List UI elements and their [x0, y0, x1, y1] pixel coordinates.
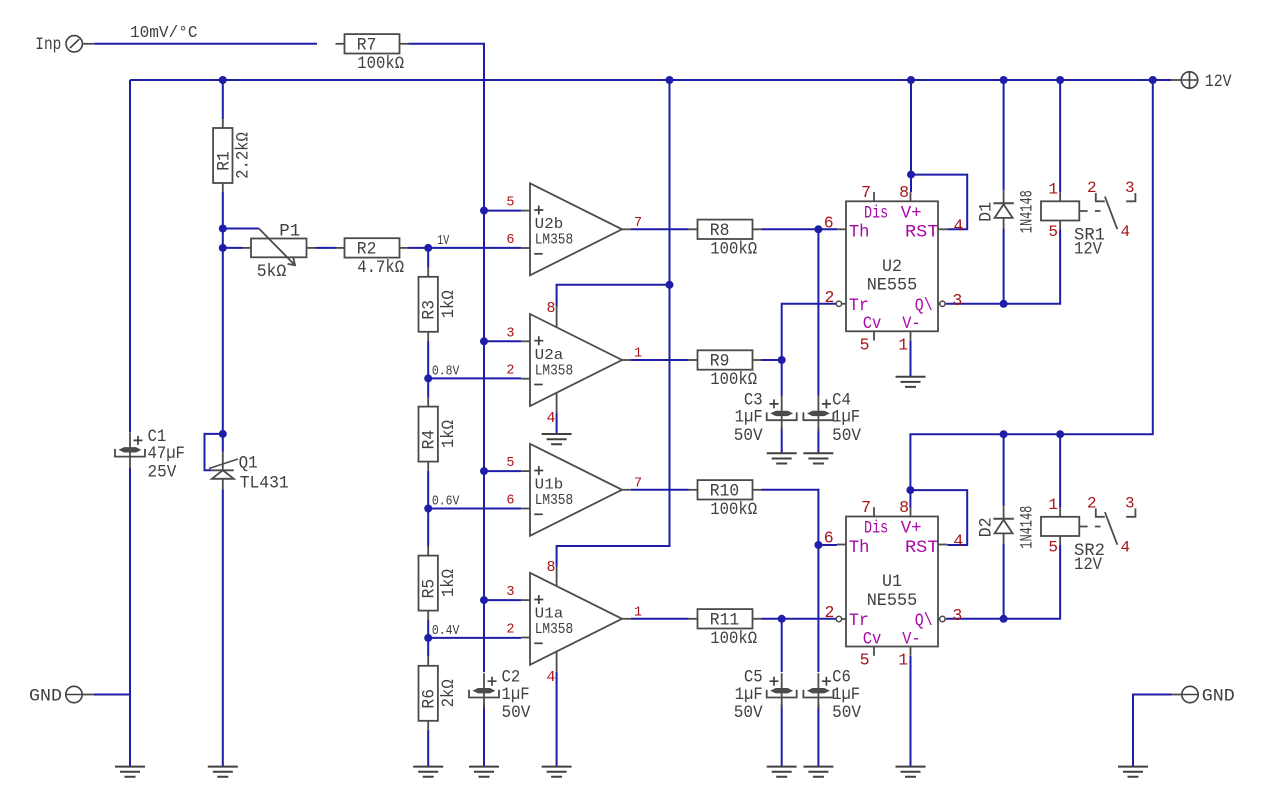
- ground: [803, 767, 833, 777]
- svg-text:100kΩ: 100kΩ: [357, 54, 404, 74]
- junction: [424, 634, 432, 642]
- wire Q to SR1 pin5: [1004, 230, 1061, 304]
- wire P1 wiper: [223, 228, 259, 230]
- junction: [219, 225, 227, 233]
- junction: [1056, 76, 1064, 84]
- svg-text:3: 3: [506, 585, 514, 600]
- wire R8 to U2 Th: [762, 228, 838, 230]
- wire D2 top: [1003, 434, 1005, 506]
- diode D1: [1003, 191, 1005, 204]
- svg-text:Dis: Dis: [864, 203, 888, 223]
- svg-text:RST: RST: [905, 538, 939, 558]
- capacitor C6: [817, 673, 819, 708]
- timer U2: [846, 201, 938, 331]
- svg-text:4: 4: [1121, 223, 1131, 241]
- svg-text:12V: 12V: [1074, 239, 1102, 259]
- junction: [219, 76, 227, 84]
- svg-text:R5: R5: [420, 579, 440, 599]
- wire D1 top: [1003, 80, 1005, 191]
- wire R6 to ground: [427, 730, 429, 767]
- shunt reference Q1 TL431: [222, 452, 224, 471]
- svg-text:Dis: Dis: [864, 519, 888, 539]
- junction: [480, 207, 488, 215]
- svg-text:1: 1: [898, 651, 908, 670]
- relay SR1 contact: [1096, 193, 1105, 201]
- svg-text:R11: R11: [710, 611, 739, 631]
- svg-text:3: 3: [952, 291, 962, 310]
- wire right GND pin: [1133, 695, 1172, 767]
- wire 0.8V to U2a pin2: [428, 377, 521, 379]
- junction: [424, 244, 432, 252]
- wire C5 hang: [781, 619, 783, 672]
- op-amp U2a: [530, 314, 622, 406]
- svg-text:1µF: 1µF: [832, 685, 860, 705]
- wire U2 V- to ground: [910, 341, 912, 377]
- junction: [424, 374, 432, 382]
- svg-text:1V: 1V: [437, 234, 450, 249]
- svg-text:GND: GND: [1202, 687, 1235, 707]
- svg-text:RST: RST: [905, 223, 939, 243]
- wire Q to SR2 pin5: [1004, 545, 1061, 619]
- svg-text:Tr: Tr: [849, 296, 869, 316]
- svg-text:2: 2: [506, 623, 514, 638]
- wire R1 node to Q1: [222, 248, 224, 452]
- wire +input rail: [483, 211, 485, 672]
- svg-text:R2: R2: [357, 240, 377, 260]
- ground: [208, 767, 238, 777]
- junction: [1000, 76, 1008, 84]
- svg-text:Th: Th: [849, 538, 870, 558]
- wire SR2 pin1: [1059, 434, 1061, 508]
- svg-text:Q\: Q\: [915, 611, 933, 631]
- wire R2 to 1V node: [409, 247, 429, 249]
- wire Inp to R7: [94, 43, 317, 45]
- svg-text:LM358: LM358: [535, 232, 574, 249]
- svg-text:2.2kΩ: 2.2kΩ: [234, 132, 254, 179]
- svg-text:LM358: LM358: [535, 492, 574, 509]
- capacitor C3: [781, 396, 783, 431]
- svg-text:V-: V-: [902, 629, 920, 649]
- wire 0.8V-R4: [427, 378, 429, 397]
- svg-text:25V: 25V: [148, 462, 177, 482]
- wire C3 hang: [781, 360, 783, 396]
- svg-text:U1: U1: [882, 572, 902, 592]
- svg-text:LM358: LM358: [535, 621, 574, 638]
- svg-text:NE555: NE555: [867, 276, 918, 296]
- svg-text:R6: R6: [420, 689, 440, 709]
- capacitor C1: [129, 432, 131, 467]
- svg-text:50V: 50V: [832, 703, 861, 723]
- wire divider 1V-R3: [427, 248, 429, 268]
- junction: [666, 76, 674, 84]
- junction: [1056, 430, 1064, 438]
- pin Inp stub: [82, 43, 94, 45]
- wire R10 jog to U1 Th: [762, 490, 838, 545]
- wire R5-0.4V: [427, 620, 429, 638]
- ground C4: [803, 453, 833, 463]
- junction: [778, 615, 786, 623]
- wire C4 hang: [817, 229, 819, 396]
- svg-text:5: 5: [860, 651, 870, 670]
- ground: [896, 767, 926, 777]
- svg-text:P1: P1: [279, 222, 300, 242]
- capacitor C2: [483, 673, 485, 708]
- resistor R4: [427, 398, 429, 407]
- wire U2 Tr jog: [782, 304, 837, 360]
- resistor R1: [222, 119, 224, 128]
- svg-text:3: 3: [1125, 495, 1135, 513]
- svg-text:V+: V+: [901, 519, 922, 539]
- wire +input row 4: [484, 599, 521, 601]
- op-amp U1a pin 8 stub: [556, 567, 558, 587]
- op-amp U2b: [530, 183, 622, 275]
- svg-text:1kΩ: 1kΩ: [439, 290, 459, 318]
- svg-text:U2: U2: [882, 257, 902, 277]
- svg-text:1µF: 1µF: [735, 685, 763, 705]
- wire R1 to P1 node: [222, 192, 224, 248]
- junction: [906, 486, 914, 494]
- svg-text:1: 1: [1048, 180, 1058, 198]
- junction: [219, 244, 227, 252]
- svg-text:4.7kΩ: 4.7kΩ: [357, 258, 404, 278]
- svg-text:R4: R4: [420, 430, 440, 450]
- svg-text:5: 5: [506, 196, 514, 211]
- svg-text:0.6V: 0.6V: [432, 495, 460, 510]
- pin GND left stub: [82, 694, 94, 696]
- resistor R6: [427, 657, 429, 666]
- svg-text:5: 5: [506, 456, 514, 471]
- svg-text:8: 8: [546, 559, 555, 576]
- pin 12V: [1181, 72, 1197, 88]
- svg-text:1: 1: [634, 347, 642, 362]
- junction: [480, 337, 488, 345]
- wire U1 Q out: [947, 618, 1004, 620]
- wire C1 to ground: [129, 468, 131, 767]
- wire C6 to ground: [817, 704, 819, 766]
- wire op-amp power rail: [557, 80, 670, 567]
- pin GND left: [66, 686, 82, 702]
- relay SR1 coil: [1059, 192, 1061, 201]
- ground: [469, 767, 499, 777]
- svg-text:2: 2: [506, 364, 514, 379]
- ground: [115, 767, 145, 777]
- wire U2 RST loop: [911, 175, 967, 230]
- svg-text:7: 7: [861, 498, 871, 517]
- svg-text:D1: D1: [977, 202, 997, 222]
- svg-text:7: 7: [634, 216, 642, 231]
- svg-text:U1a: U1a: [535, 606, 564, 623]
- svg-text:2: 2: [824, 603, 834, 622]
- wire U2b out to R8: [631, 228, 689, 230]
- wire P1 left: [223, 247, 243, 249]
- svg-text:100kΩ: 100kΩ: [710, 500, 757, 520]
- ground C3: [767, 453, 797, 463]
- wire U2 Q out: [947, 303, 1004, 305]
- wire D2 bottom: [1003, 544, 1005, 619]
- junction: [907, 76, 915, 84]
- junction: [480, 467, 488, 475]
- pin Inp: [66, 36, 82, 52]
- wire D1 bottom: [1003, 229, 1005, 304]
- resistor R11: [689, 618, 698, 620]
- wire +input row 1: [484, 210, 521, 212]
- svg-text:1µF: 1µF: [832, 408, 860, 428]
- wire U2 V+ from rail: [910, 80, 912, 192]
- wire C1 branch: [129, 80, 131, 432]
- capacitor C5: [781, 673, 783, 708]
- svg-text:Cv: Cv: [863, 629, 882, 649]
- wire R9 to Tr node: [762, 359, 782, 361]
- pin GND right stub: [1172, 694, 1182, 696]
- svg-text:0.4V: 0.4V: [432, 624, 460, 639]
- svg-text:4: 4: [546, 669, 555, 686]
- resistor R7: [336, 43, 345, 45]
- ground: [767, 767, 797, 777]
- svg-text:Cv: Cv: [863, 314, 882, 334]
- svg-text:6: 6: [824, 214, 834, 233]
- wire left GND pin: [94, 694, 130, 696]
- op-amp U2a pin 8 stub: [556, 307, 558, 328]
- svg-text:1N4148: 1N4148: [1017, 190, 1037, 233]
- svg-text:R10: R10: [710, 482, 739, 502]
- wire R1 top: [222, 80, 224, 119]
- svg-text:U2a: U2a: [535, 347, 564, 364]
- svg-text:Th: Th: [849, 223, 870, 243]
- wire C3 to ground: [781, 428, 783, 453]
- wire C2 to ground: [483, 704, 485, 766]
- svg-text:6: 6: [506, 233, 514, 248]
- wire P1 to R2: [316, 247, 336, 249]
- svg-text:1kΩ: 1kΩ: [439, 569, 459, 597]
- svg-text:5: 5: [860, 335, 870, 354]
- wire C6 hang: [817, 545, 819, 672]
- svg-text:1: 1: [634, 605, 642, 620]
- wire U2a pin8: [557, 285, 670, 307]
- svg-text:4: 4: [1121, 539, 1131, 557]
- svg-text:4: 4: [953, 532, 963, 551]
- svg-text:3: 3: [952, 606, 962, 625]
- svg-text:6: 6: [506, 494, 514, 509]
- svg-text:3: 3: [1125, 179, 1135, 197]
- resistor R10: [689, 489, 698, 491]
- op-amp U1a: [530, 573, 622, 665]
- svg-text:R9: R9: [710, 352, 730, 372]
- wire C4 to ground: [817, 428, 819, 453]
- pin GND right: [1182, 686, 1198, 702]
- junction: [1149, 76, 1157, 84]
- svg-text:10mV/°C: 10mV/°C: [130, 23, 198, 42]
- junction: [666, 281, 674, 289]
- svg-text:50V: 50V: [734, 426, 763, 446]
- wire +input row 3: [484, 470, 521, 472]
- junction: [1000, 300, 1008, 308]
- wire U1a pin4 to ground: [556, 672, 558, 767]
- svg-text:1: 1: [898, 335, 908, 354]
- relay SR2 coil: [1059, 508, 1061, 517]
- wire Q1 to ground: [222, 490, 224, 767]
- wire U2a pin4 to ground: [556, 412, 558, 434]
- svg-text:2: 2: [1087, 179, 1097, 197]
- svg-text:50V: 50V: [734, 703, 763, 723]
- svg-text:R3: R3: [420, 300, 440, 320]
- svg-text:4: 4: [953, 216, 963, 235]
- svg-text:5: 5: [1048, 539, 1058, 557]
- svg-text:Q\: Q\: [915, 296, 933, 316]
- svg-text:NE555: NE555: [867, 591, 918, 611]
- svg-text:50V: 50V: [502, 703, 531, 723]
- svg-text:U2b: U2b: [535, 216, 564, 233]
- op-amp U1b: [530, 444, 622, 536]
- wire R11 to U1 Tr: [762, 618, 837, 620]
- op-amp U1a pin 4 stub: [556, 652, 558, 672]
- svg-text:GND: GND: [29, 687, 62, 707]
- svg-text:2: 2: [824, 288, 834, 307]
- wire R4-0.6V: [427, 471, 429, 509]
- svg-text:1kΩ: 1kΩ: [439, 420, 459, 448]
- wire 0.4V to U1a pin2: [428, 637, 521, 639]
- svg-text:47µF: 47µF: [148, 444, 185, 464]
- resistor R3: [427, 268, 429, 277]
- ground: [542, 767, 572, 777]
- svg-text:R1: R1: [214, 151, 234, 171]
- svg-text:1: 1: [1048, 496, 1058, 514]
- svg-text:2: 2: [1087, 495, 1097, 513]
- wire +input row 2: [484, 340, 521, 342]
- junction: [778, 356, 786, 364]
- wire 12V rail: [130, 79, 1171, 81]
- wire right 12V drop: [910, 80, 1152, 508]
- svg-text:5kΩ: 5kΩ: [257, 262, 287, 282]
- capacitor C4: [817, 396, 819, 431]
- junction: [219, 430, 227, 438]
- wire 0.4V-R6: [427, 638, 429, 657]
- wire R3-0.8V: [427, 341, 429, 379]
- pin 12V stub: [1171, 79, 1181, 81]
- svg-text:0.8V: 0.8V: [432, 365, 460, 380]
- timer U1: [846, 517, 938, 647]
- junction: [424, 505, 432, 513]
- wire U2a out to R9: [631, 359, 689, 361]
- junction: [814, 541, 822, 549]
- svg-text:50V: 50V: [832, 426, 861, 446]
- svg-text:8: 8: [899, 498, 909, 517]
- resistor R8: [689, 228, 698, 230]
- diode D2: [1003, 506, 1005, 519]
- wire C5 to ground: [781, 704, 783, 766]
- wire U1 RST loop: [910, 490, 967, 545]
- resistor R5: [427, 547, 429, 556]
- op-amp U2a pin 4 stub: [556, 393, 558, 413]
- ground: [1118, 767, 1148, 777]
- svg-text:R7: R7: [357, 36, 377, 56]
- svg-text:LM358: LM358: [535, 362, 574, 379]
- junction: [1000, 430, 1008, 438]
- relay SR2 contact: [1096, 509, 1105, 517]
- wire 0.6V to U1b pin6: [428, 508, 521, 510]
- svg-text:D2: D2: [977, 517, 997, 537]
- svg-text:1µF: 1µF: [735, 408, 763, 428]
- ground U2 V-: [896, 377, 926, 387]
- junction: [480, 596, 488, 604]
- svg-text:2kΩ: 2kΩ: [439, 679, 459, 707]
- svg-text:3: 3: [506, 326, 514, 341]
- ground U2a pin4: [542, 434, 572, 444]
- svg-text:12V: 12V: [1074, 555, 1102, 575]
- svg-text:7: 7: [634, 476, 642, 491]
- svg-text:7: 7: [861, 183, 871, 202]
- wire U1b out to R10: [631, 489, 689, 491]
- ground: [413, 767, 443, 777]
- wire U1a out to R11: [631, 618, 689, 620]
- svg-text:12V: 12V: [1205, 72, 1232, 92]
- svg-text:1µF: 1µF: [502, 685, 530, 705]
- wire 0.6V-R5: [427, 509, 429, 547]
- svg-text:100kΩ: 100kΩ: [710, 629, 757, 649]
- wire U1 V- to ground: [910, 656, 912, 767]
- svg-text:U1b: U1b: [535, 477, 564, 494]
- wire R7 to +rail: [409, 44, 485, 211]
- svg-text:100kΩ: 100kΩ: [710, 239, 757, 259]
- svg-text:Tr: Tr: [849, 611, 869, 631]
- svg-text:R8: R8: [710, 221, 730, 241]
- svg-text:TL431: TL431: [240, 474, 289, 494]
- wire 1V node to U2b pin6: [428, 247, 521, 249]
- svg-text:V-: V-: [902, 314, 920, 334]
- svg-text:6: 6: [824, 529, 834, 548]
- junction: [814, 225, 822, 233]
- svg-text:5: 5: [1048, 223, 1058, 241]
- svg-text:Q1: Q1: [239, 454, 258, 474]
- svg-text:Inp: Inp: [35, 35, 61, 55]
- svg-text:V+: V+: [901, 203, 922, 223]
- wire SR1 pin1: [1059, 80, 1061, 192]
- svg-text:8: 8: [899, 183, 909, 202]
- resistor R9: [689, 359, 698, 361]
- svg-text:1N4148: 1N4148: [1017, 506, 1037, 549]
- svg-text:100kΩ: 100kΩ: [710, 370, 757, 390]
- potentiometer P1: [243, 247, 252, 249]
- resistor R2: [336, 247, 345, 249]
- junction: [907, 171, 915, 179]
- svg-text:8: 8: [546, 300, 555, 317]
- svg-text:4: 4: [546, 410, 555, 427]
- junction: [1000, 615, 1008, 623]
